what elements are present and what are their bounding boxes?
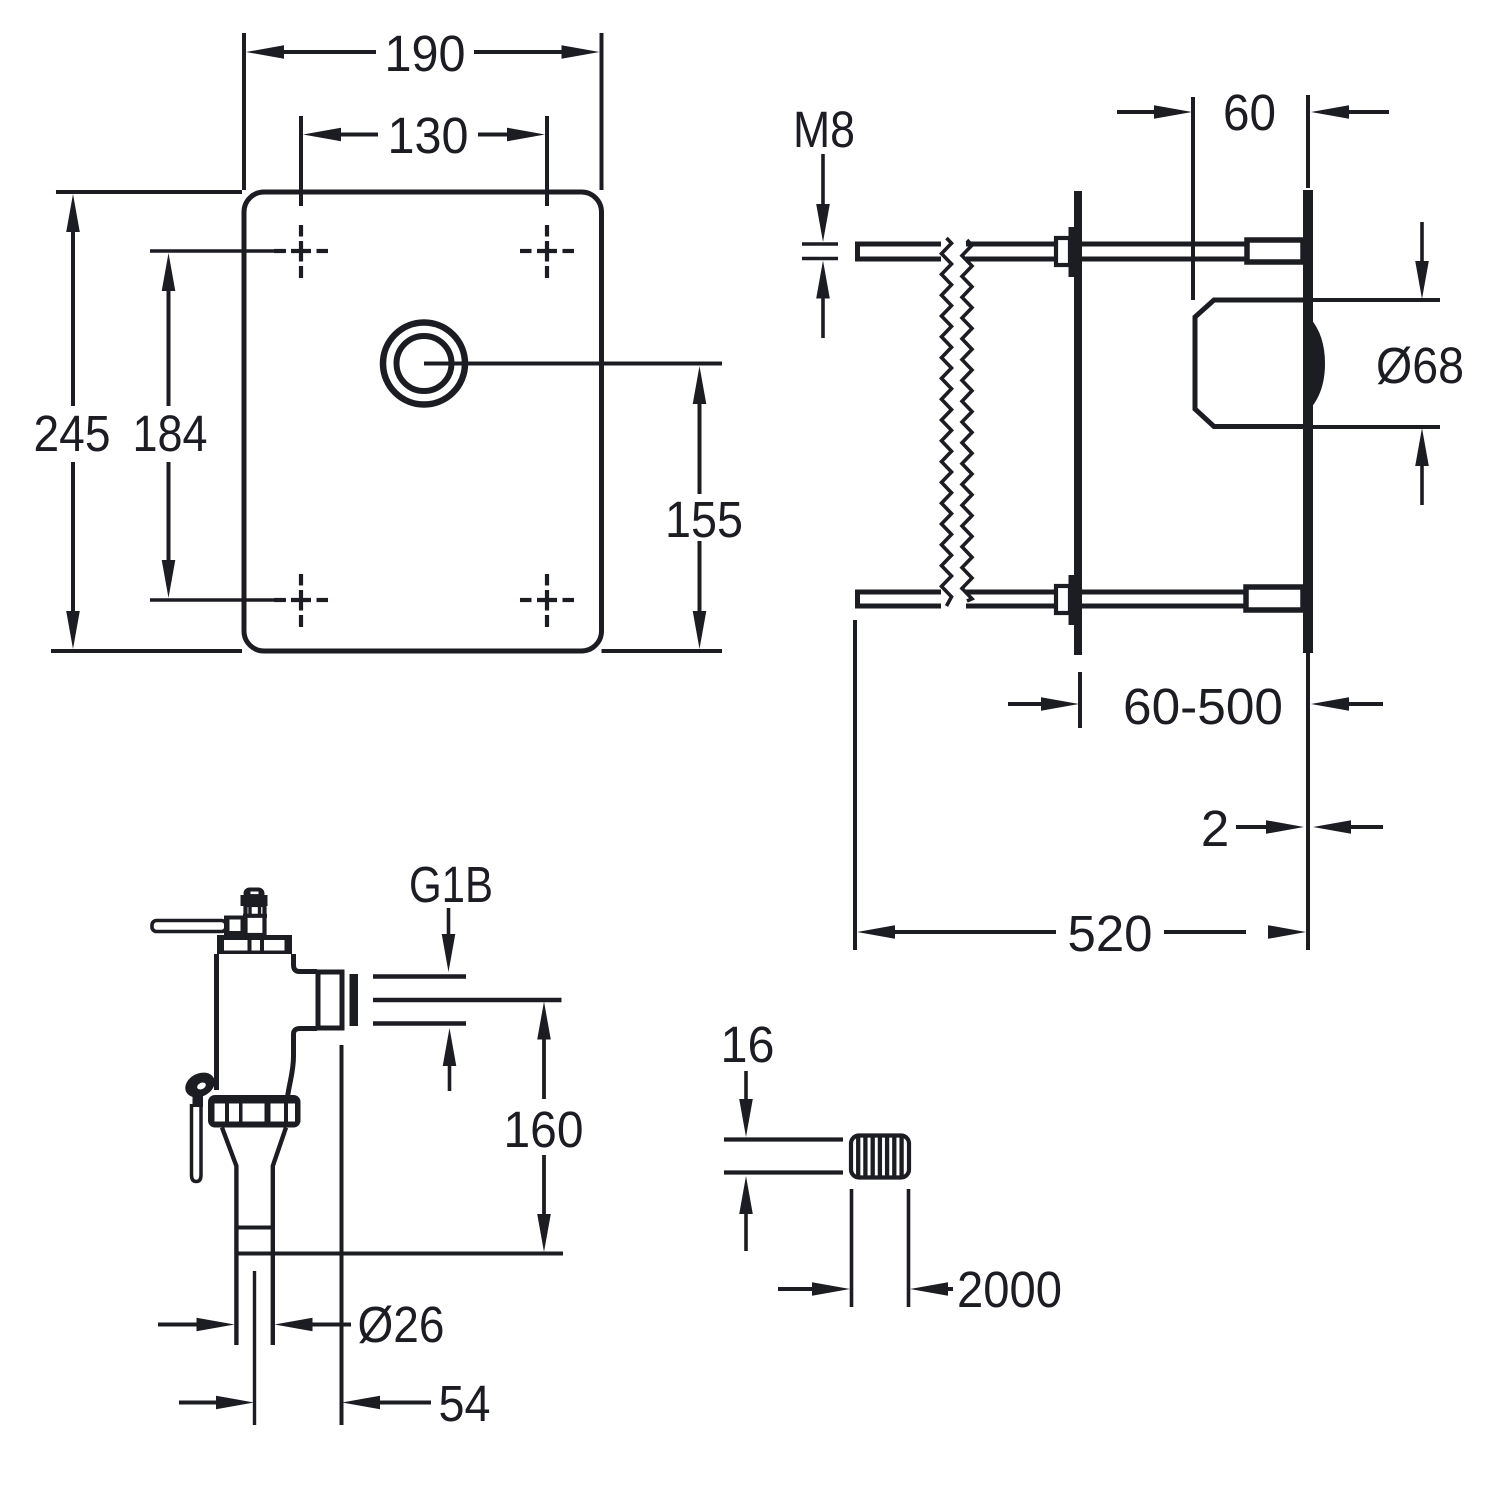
dimension 160: [537, 1002, 551, 1040]
threaded rod bottom, wall-side segment: [1082, 590, 1247, 595]
fixing hole centre mark bottom-left: [274, 574, 328, 627]
svg-text:Ø26: Ø26: [358, 1296, 445, 1353]
dimension diameter 26: [158, 1323, 197, 1327]
dimension 60-500: [1008, 702, 1042, 706]
extension line 245 bottom: [51, 649, 242, 653]
svg-text:60-500: 60-500: [1123, 678, 1283, 735]
dimension 184: [162, 253, 176, 291]
extension line 190 right: [600, 33, 604, 190]
wall panel (edge view): [1303, 190, 1313, 653]
hose top line: [724, 1137, 843, 1141]
bonnet hex nut: [217, 935, 292, 954]
leader line from supply hole centre: [424, 362, 722, 366]
wall panel extension below: [1306, 653, 1310, 950]
extension line 2000 left: [850, 1189, 854, 1307]
extension line 155 bottom: [602, 649, 723, 653]
extension line 130 left: [299, 116, 303, 206]
svg-text:2: 2: [1201, 800, 1229, 857]
threaded rod top, left segment: [858, 244, 942, 259]
outlet face extension line: [340, 1045, 344, 1425]
inlet spout centre line: [373, 998, 562, 1003]
svg-text:190: 190: [385, 25, 466, 82]
pipe joint upper line: [235, 1226, 275, 1230]
tailpipe cone left: [222, 1128, 236, 1346]
outlet flange: [318, 972, 342, 1028]
drain cock handle: [181, 1068, 219, 1103]
svg-text:16: 16: [721, 1016, 775, 1073]
extension line 130 right: [545, 116, 549, 206]
cover plate outline: [244, 192, 602, 651]
valve lever handle: [152, 921, 226, 932]
valve body right side and outlet arm: [294, 954, 318, 972]
fixing hole centre mark bottom-right: [520, 574, 574, 627]
dimension 60: [1117, 110, 1155, 114]
extension line 520 left: [853, 620, 857, 950]
outlet gasket: [350, 974, 359, 1026]
drain tube: [192, 1104, 202, 1182]
supply hole outer circle: [383, 323, 465, 405]
nut on bottom rod: [1056, 586, 1070, 613]
drain cock body: [193, 1094, 204, 1107]
supply hole inner circle: [397, 336, 452, 391]
svg-text:60: 60: [1223, 84, 1276, 141]
threaded rod bottom, spacer sleeve: [1246, 587, 1303, 610]
svg-text:245: 245: [34, 405, 111, 462]
svg-text:G1B: G1B: [409, 856, 493, 913]
threaded rod top, middle segment: [966, 242, 1057, 247]
mounting bracket plate (edge view): [1074, 191, 1082, 655]
coupling nut: [208, 1095, 301, 1128]
extension line 160 bottom (crosses pipe): [235, 1252, 564, 1256]
svg-text:Ø68: Ø68: [1376, 337, 1464, 394]
hose bottom line: [724, 1170, 843, 1174]
dimension 245: [66, 194, 80, 232]
dimension diameter 68: [1420, 222, 1424, 262]
washer on bottom rod: [1069, 575, 1077, 625]
stem ticks: [248, 906, 251, 915]
svg-text:2000: 2000: [957, 1261, 1062, 1318]
M8 leader arrow up: [816, 261, 830, 299]
threaded rod top, spacer sleeve: [1247, 240, 1303, 262]
pipe centre extension line: [253, 1271, 256, 1425]
M8 tick bottom: [802, 257, 838, 261]
G1B arrow down: [447, 908, 451, 935]
valve top stem: [246, 905, 265, 935]
push button protruding through wall: [1310, 318, 1325, 409]
dimension 190: [246, 45, 284, 59]
extension line diameter 68 top: [1313, 298, 1440, 302]
svg-text:54: 54: [439, 1375, 491, 1432]
M8 leader arrow down: [821, 154, 825, 204]
svg-text:130: 130: [388, 107, 469, 164]
dimension 520: [857, 925, 895, 939]
push button cap: [244, 888, 265, 900]
inlet arrow up: [443, 1028, 457, 1066]
break zigzag line left: [942, 238, 952, 606]
inlet spout bottom line: [373, 1021, 466, 1026]
break zigzag line right: [962, 240, 972, 601]
extension line 60 left: [1191, 97, 1195, 300]
dimension 2000: [778, 1287, 814, 1291]
stem collar line: [243, 914, 267, 918]
tailpipe cone right: [273, 1128, 286, 1346]
valve body left edge: [214, 954, 219, 1090]
fixing hole centre mark top-right: [520, 225, 574, 278]
lever hub: [224, 916, 245, 936]
M8 tick top: [802, 242, 838, 246]
inlet spout top line: [373, 974, 466, 979]
svg-text:M8: M8: [793, 101, 855, 158]
svg-text:520: 520: [1068, 905, 1153, 962]
dimension 54: [179, 1401, 217, 1405]
dimension 155: [693, 366, 707, 404]
extension line 2000 right: [907, 1189, 911, 1307]
extension line diameter 68 bottom: [1313, 425, 1440, 429]
extension line 184 bottom: [150, 598, 286, 602]
extension line 184 top: [150, 249, 286, 253]
washer on top rod: [1069, 227, 1077, 277]
wall panel extension above: [1306, 95, 1310, 188]
dimension 130: [303, 128, 341, 142]
svg-text:160: 160: [504, 1101, 584, 1158]
extension line 245 top: [56, 190, 242, 194]
svg-text:155: 155: [665, 491, 743, 548]
hose corrugated section: [851, 1136, 909, 1178]
16 arrow up: [739, 1176, 753, 1214]
bracket extension line below: [1078, 672, 1082, 728]
16 arrow down: [744, 1071, 748, 1100]
nut on top rod: [1056, 238, 1070, 265]
threaded rod bottom, middle segment: [966, 590, 1057, 595]
valve dome housing: [1195, 300, 1303, 427]
threaded rod bottom, left segment: [858, 592, 942, 606]
threaded rod top, wall-side segment: [1082, 242, 1248, 247]
extension line 190 left: [242, 33, 246, 190]
svg-text:184: 184: [133, 405, 208, 462]
fixing hole centre mark top-left: [274, 225, 328, 278]
